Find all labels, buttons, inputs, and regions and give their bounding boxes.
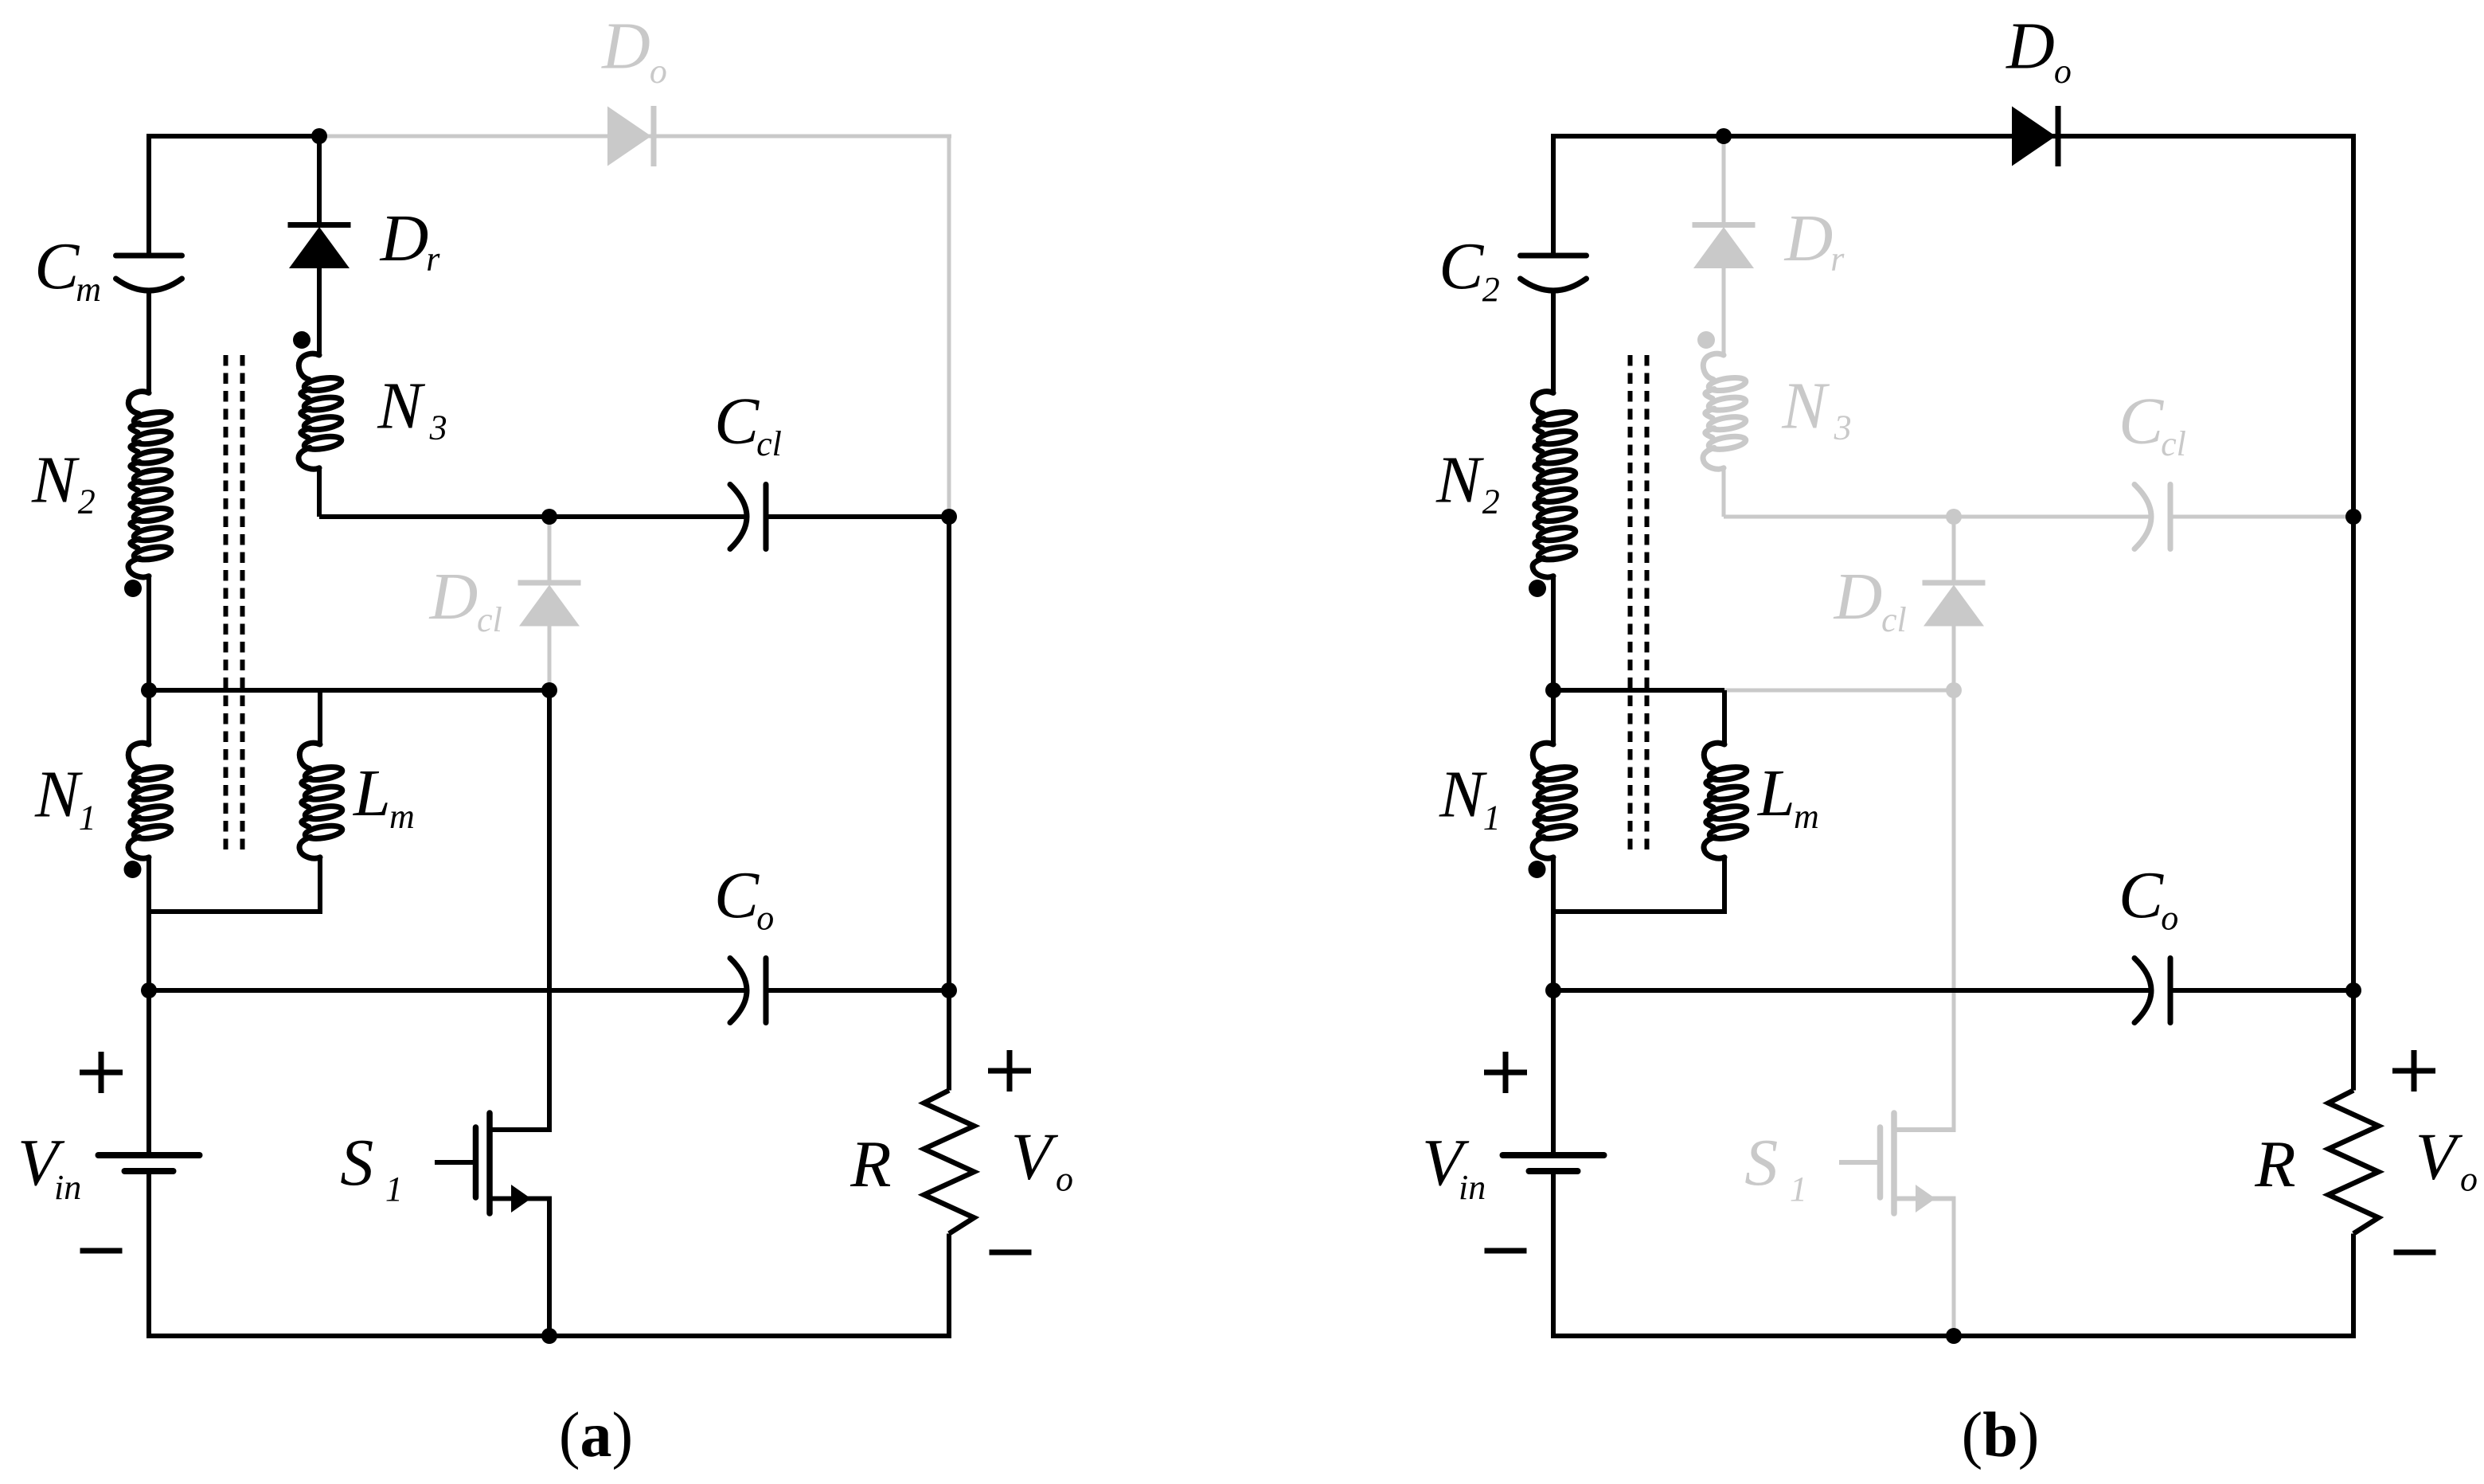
node: source bottom node (b): [1946, 1328, 1962, 1344]
svg-text:V: V: [1011, 1119, 1059, 1193]
winding N2 (b): [1533, 392, 1553, 414]
svg-text:D: D: [2006, 10, 2055, 84]
wire: output rail left of Co (a): [149, 988, 747, 993]
svg-text:D: D: [380, 201, 429, 275]
wire: source vertical (b): [1952, 1197, 1956, 1337]
diode Dr (a): [288, 222, 351, 228]
capacitor Cm: [116, 253, 182, 259]
node: top junction (a): [311, 128, 327, 144]
svg-text:D: D: [429, 560, 478, 634]
wire: Dcl bottom stub (b): [1952, 627, 1956, 691]
svg-text:N: N: [1439, 758, 1487, 832]
svg-text:cl: cl: [1881, 600, 1907, 639]
wire: rail junction to battery (b): [1551, 990, 1556, 1155]
wire: right rail mid (b): [2351, 517, 2356, 1091]
node: Ccl left junction (a): [541, 509, 557, 525]
winding N1 (a): [128, 743, 149, 768]
transformer core dashed lines (a): [224, 355, 228, 853]
svg-text:cl: cl: [2161, 424, 2186, 463]
wire: top rail right segment through Do (a): [319, 135, 951, 139]
wire: Dcl top stub (b): [1952, 517, 1956, 583]
svg-text:o: o: [756, 899, 774, 938]
polarity dot N1 (a): [124, 861, 142, 878]
wire: battery to bottom rail (a): [146, 1171, 151, 1336]
svg-text:2: 2: [78, 482, 96, 521]
svg-text:2: 2: [1482, 270, 1500, 309]
minus sign Vin (a): [80, 1248, 123, 1254]
minus sign Vo (b): [2394, 1250, 2436, 1256]
wire: mid junction to N1 (b): [1551, 690, 1556, 744]
wire: bottom rail (a): [146, 1334, 951, 1338]
svg-text:in: in: [54, 1168, 81, 1207]
wire: battery to bottom rail (b): [1551, 1171, 1556, 1336]
svg-text:N: N: [377, 369, 425, 443]
diode Dcl (a): [518, 580, 581, 586]
wire: N2 to mid junction (b): [1551, 576, 1556, 690]
wire: mid horizontal N1/Lm (a): [149, 688, 320, 693]
wire: Lm top lead (b): [1722, 690, 1727, 744]
polarity dot N2 (a): [124, 580, 142, 597]
svg-text:m: m: [1794, 797, 1819, 836]
svg-text:C: C: [2119, 384, 2164, 458]
node: Ccl right node (a): [941, 509, 957, 525]
capacitor Ccl (b): [2134, 485, 2151, 549]
capacitor C2: [1521, 253, 1587, 259]
polarity dot N3 (a): [293, 331, 310, 349]
wire: source vertical (a): [547, 1197, 552, 1337]
wire: Ccl right lead (b): [2170, 515, 2353, 519]
wire: mid horizontal Lm to Dcl branch (a): [320, 688, 549, 693]
wire: top rail right segment through Do (b): [1724, 134, 2356, 139]
diode Dcl (b): [1923, 580, 1986, 586]
node: Ccl left junction (b): [1946, 509, 1962, 525]
svg-text:cl: cl: [477, 600, 502, 639]
svg-text:D: D: [1834, 560, 1883, 634]
wire: N3 to Ccl junction (a): [319, 514, 549, 519]
svg-text:o: o: [2460, 1160, 2478, 1199]
polarity dot N3 (b): [1697, 331, 1715, 349]
winding Lm (a): [299, 743, 320, 768]
wire: N3 bottom lead (b): [1722, 468, 1726, 517]
winding N1 (b): [1533, 743, 1553, 768]
svg-text:2: 2: [1482, 482, 1500, 521]
diode Do (b): [2056, 106, 2061, 166]
capacitor Ccl (a): [730, 485, 747, 549]
wire: drain vertical (a): [547, 690, 552, 1132]
svg-text:r: r: [1830, 240, 1845, 279]
wire: left rail top to Cm (b): [1551, 136, 1556, 256]
wire: right rail mid (a): [947, 517, 951, 1091]
svg-text:S: S: [340, 1126, 373, 1200]
node: Ccl right node (b): [2345, 509, 2361, 525]
svg-text:C: C: [714, 858, 760, 932]
svg-text:in: in: [1459, 1168, 1486, 1207]
polarity dot N1 (b): [1529, 861, 1546, 878]
capacitor Co (b): [2134, 959, 2151, 1023]
diode Do (a): [651, 106, 657, 166]
wire: right rail bottom (a): [947, 1234, 951, 1337]
svg-text:cl: cl: [756, 424, 782, 463]
svg-text:N: N: [1435, 443, 1484, 517]
minus sign Vo (a): [990, 1250, 1032, 1256]
svg-text:1: 1: [1483, 799, 1501, 838]
wire: top junction to Dr (b): [1722, 136, 1726, 225]
resistor R (b): [2329, 1091, 2379, 1234]
svg-text:m: m: [76, 270, 101, 309]
node: top junction (b): [1716, 128, 1732, 144]
winding Lm (b): [1704, 743, 1724, 768]
svg-text:(b): (b): [1962, 1400, 2040, 1470]
wire: bottom tie N1-Lm (a): [149, 909, 320, 914]
svg-text:o: o: [1056, 1160, 1073, 1199]
node: source bottom node (a): [541, 1328, 557, 1344]
wire: output rail left of Co (b): [1553, 988, 2151, 993]
plus sign Vo (b): [2392, 1068, 2435, 1074]
wire: Dcl bottom stub (a): [548, 627, 552, 691]
svg-text:o: o: [650, 52, 667, 91]
svg-text:N: N: [31, 443, 80, 517]
svg-text:C: C: [34, 229, 80, 303]
svg-text:N: N: [34, 758, 83, 832]
winding N2 (a): [128, 392, 149, 414]
svg-text:1: 1: [385, 1170, 403, 1209]
wire: N1 bottom to rail junction (b): [1551, 857, 1556, 990]
node: Dcl bottom junction (a): [541, 682, 557, 698]
wire: output rail right of Co (a): [766, 988, 949, 993]
wire: N1 bottom to rail junction (a): [146, 857, 151, 990]
svg-text:1: 1: [1790, 1170, 1807, 1209]
mosfet S1 (b): [1839, 1160, 1877, 1165]
wire: right rail upper (b): [2351, 136, 2356, 517]
node: Co right node (b): [2345, 982, 2361, 998]
svg-text:D: D: [601, 10, 650, 84]
wire: Lm top lead (a): [318, 690, 322, 744]
wire: right rail upper (a): [947, 136, 951, 517]
svg-text:D: D: [1784, 201, 1834, 275]
wire: Dr to N3 (a): [317, 268, 322, 355]
svg-text:C: C: [1439, 229, 1484, 303]
svg-text:R: R: [2254, 1127, 2295, 1201]
transformer core dashed lines (b): [1628, 355, 1633, 853]
wire: mid horizontal Lm to Dcl branch (b): [1724, 689, 1954, 693]
minus sign Vin (b): [1485, 1248, 1527, 1254]
wire: mid junction to N1 (a): [146, 690, 151, 744]
wire: output rail right of Co (b): [2170, 988, 2353, 993]
battery Vin (a): [99, 1152, 200, 1158]
svg-text:3: 3: [429, 408, 447, 447]
plus sign Vin (a): [80, 1070, 123, 1076]
wire: top rail left segment (a): [146, 134, 319, 139]
battery Vin (b): [1503, 1152, 1604, 1158]
wire: Lm bottom lead (a): [318, 857, 322, 914]
wire: right rail bottom (b): [2351, 1234, 2356, 1337]
wire: N3 bottom lead (a): [317, 468, 322, 517]
svg-text:1: 1: [79, 799, 96, 838]
winding N3 (a): [299, 353, 319, 379]
node: left mid junction (a): [141, 682, 157, 698]
svg-text:C: C: [714, 384, 760, 458]
wire: Lm bottom lead (b): [1722, 857, 1727, 914]
svg-text:L: L: [1757, 756, 1795, 830]
svg-text:m: m: [389, 797, 415, 836]
svg-text:V: V: [2416, 1119, 2463, 1193]
wire: N3 to Ccl junction (b): [1724, 515, 1954, 519]
wire: top junction to Dr (a): [317, 136, 322, 225]
svg-text:R: R: [849, 1127, 891, 1201]
mosfet S1 (a): [435, 1160, 473, 1165]
wire: Dcl top stub (a): [548, 517, 552, 583]
wire: Ccl left lead (a): [549, 514, 747, 519]
plus sign Vin (b): [1484, 1070, 1527, 1076]
wire: top rail left segment (b): [1551, 134, 1724, 139]
node: left rail junction (b): [1545, 982, 1561, 998]
wire: Ccl right lead (a): [766, 514, 949, 519]
plus sign Vo (a): [988, 1068, 1031, 1074]
svg-text:N: N: [1781, 369, 1830, 443]
wire: mid horizontal N1/Lm (b): [1553, 688, 1724, 693]
winding N3 (b): [1703, 353, 1724, 379]
wire: rail junction to battery (a): [146, 990, 151, 1155]
svg-text:r: r: [426, 240, 440, 279]
svg-text:(a): (a): [559, 1400, 633, 1470]
node: left rail junction (a): [141, 982, 157, 998]
resistor R (a): [924, 1091, 974, 1234]
diode Dr (b): [1693, 222, 1756, 228]
wire: bottom tie N1-Lm (b): [1553, 909, 1724, 914]
wire: Ccl left lead (b): [1954, 515, 2151, 519]
svg-text:o: o: [2054, 52, 2072, 91]
wire: N2 to mid junction (a): [146, 576, 151, 690]
wire: left rail top to Cm (a): [146, 136, 151, 256]
svg-text:S: S: [1744, 1126, 1778, 1200]
svg-text:3: 3: [1834, 408, 1852, 447]
wire: bottom rail (b): [1551, 1334, 2356, 1338]
node: Co right node (a): [941, 982, 957, 998]
svg-text:L: L: [353, 756, 391, 830]
node: Dcl bottom junction (b): [1946, 682, 1962, 698]
node: left mid junction (b): [1545, 682, 1561, 698]
wire: Dr to N3 (b): [1722, 268, 1726, 355]
wire: drain vertical (b): [1952, 690, 1956, 1132]
svg-text:C: C: [2119, 858, 2164, 932]
capacitor Co (a): [730, 959, 747, 1023]
svg-text:o: o: [2161, 899, 2178, 938]
polarity dot N2 (b): [1529, 580, 1546, 597]
wire: Cm to N2 (b): [1551, 291, 1556, 393]
wire: Cm to N2 (a): [146, 291, 151, 393]
